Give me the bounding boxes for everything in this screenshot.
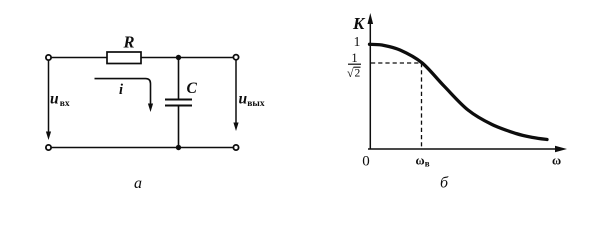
terminal top-right [233,55,238,60]
svg-text:1: 1 [354,34,361,49]
svg-text:C: C [187,80,198,97]
wire resistor to node A [141,57,176,59]
wire node B to terminal bottom-right [181,147,233,149]
svg-text:R: R [122,33,134,52]
K axis (vertical) [369,22,371,149]
svg-text:0: 0 [362,154,370,170]
svg-text:а: а [134,175,142,192]
svg-text:i: i [119,82,123,98]
resistor R1 [107,52,141,64]
svg-text:в: в [425,159,430,169]
wire capacitor down to node B [178,107,180,147]
svg-text:√: √ [347,66,354,80]
omega axis (horizontal) [368,148,556,150]
label u_vx [50,91,70,110]
wire node A down to capacitor [178,59,180,99]
svg-text:2: 2 [355,68,361,80]
capacitor C1 bottom plate [165,104,192,106]
label omega_v [416,154,430,169]
label u_vyx [239,91,265,110]
svg-text:1: 1 [351,51,357,65]
current arrow i [95,79,154,112]
node A (junction dot top) [176,55,181,60]
svg-text:вых: вых [247,99,265,109]
svg-text:вх: вх [60,99,70,109]
voltage arrow u_vyx [233,60,238,131]
wire node A to terminal top-right [181,57,233,59]
capacitor C1 top plate [165,98,192,100]
terminal top-left [46,55,51,60]
svg-text:K: K [352,14,366,33]
wire top-left to resistor [52,57,107,59]
wire bottom-left to node B [52,147,176,149]
terminal bottom-left [46,145,51,150]
dashed drop at omega_v [421,63,423,148]
svg-text:u: u [239,91,248,108]
frequency response curve [370,44,548,139]
svg-text:ω: ω [552,154,561,168]
svg-text:u: u [50,91,59,108]
label 1/sqrt2 fraction [347,51,361,80]
terminal bottom-right [233,145,238,150]
dashed level 1/sqrt2 [371,62,422,64]
voltage arrow u_vx [46,61,51,141]
svg-text:ω: ω [416,154,425,168]
node B (junction dot bottom) [176,145,181,150]
svg-text:б: б [440,175,449,192]
